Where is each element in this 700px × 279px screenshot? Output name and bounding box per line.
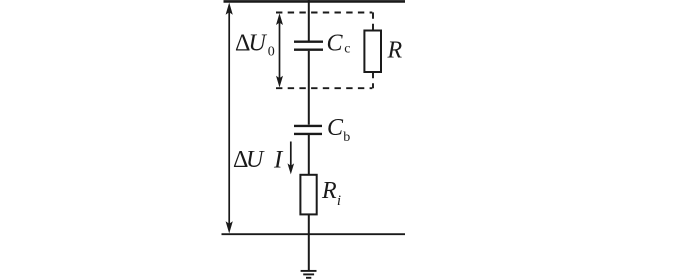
current arrow I: [288, 142, 295, 175]
svg-text:Cc: Cc: [327, 30, 351, 56]
svg-text:Ri: Ri: [321, 178, 341, 209]
svg-text:ΔU0: ΔU0: [235, 31, 275, 60]
capacitor C_b: [294, 126, 322, 134]
svg-text:Cb: Cb: [327, 115, 350, 145]
ground: [301, 271, 317, 278]
dashed wire bottom: [276, 87, 372, 89]
resistor R: [364, 31, 381, 73]
dashed wire to R top: [372, 12, 374, 30]
wire bottom bus: [222, 233, 406, 235]
resistor R_i: [300, 175, 316, 215]
wire Cb-to-Ri: [308, 135, 310, 175]
wire top bus: [224, 0, 406, 3]
svg-text:I: I: [273, 146, 284, 173]
svg-text:R: R: [387, 37, 403, 63]
wire top-to-Cc: [308, 0, 310, 41]
dimension arrow ΔU (left, double-headed): [226, 3, 233, 234]
dashed wire top: [276, 12, 372, 14]
wire Cc-to-Cb: [308, 51, 310, 125]
svg-text:ΔU: ΔU: [233, 147, 265, 173]
capacitor C_c: [294, 42, 323, 50]
dimension arrow ΔU0 (double-headed): [276, 13, 283, 87]
wire Ri-to-ground: [308, 214, 310, 271]
dashed wire from R bottom: [372, 72, 374, 88]
